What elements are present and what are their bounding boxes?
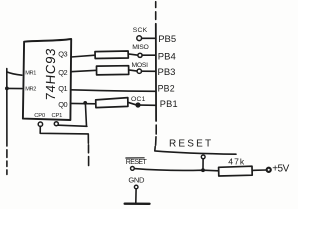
wire Q0 feedback to CP1 <box>58 104 87 127</box>
svg-text:CP1: CP1 <box>52 113 63 119</box>
pad RESET tap <box>201 155 205 159</box>
resistor R2 <box>97 66 129 75</box>
svg-text:PB3: PB3 <box>158 67 176 78</box>
resistor R1 <box>95 51 128 59</box>
pin CP0 pad <box>38 122 42 126</box>
node RESET junction <box>201 168 205 172</box>
overline of /RESET <box>125 157 144 159</box>
wire Q0 to R3 <box>71 102 96 104</box>
wire Q3 to R1 <box>71 55 95 57</box>
wire MISO pad to PB4 <box>142 54 156 56</box>
wire Q1 to PB2 <box>71 90 156 92</box>
wire R2 to MOSI pad <box>129 70 138 71</box>
wire MR1 pin <box>7 72 22 75</box>
svg-text:CP0: CP0 <box>34 113 45 119</box>
svg-text:Q3: Q3 <box>58 50 67 59</box>
wire port boundary dashed bottom <box>155 125 158 145</box>
wire left dashed continuation <box>6 150 8 175</box>
IC U1 74HC93 body <box>23 39 71 120</box>
pad MISO <box>138 53 142 57</box>
resistor R3 <box>96 98 128 108</box>
svg-text:MR1: MR1 <box>25 70 36 76</box>
wire R3 to OC1 node <box>128 102 136 105</box>
wire RESET tap drop <box>202 159 204 169</box>
wire SCK pad to PB5 <box>142 37 156 39</box>
svg-text:Q1: Q1 <box>58 84 67 93</box>
svg-text:Q0: Q0 <box>58 100 67 109</box>
pad GND connector <box>134 185 138 189</box>
svg-text:PB5: PB5 <box>158 34 176 45</box>
wire CP0 clock line <box>40 126 88 143</box>
svg-text:PB2: PB2 <box>158 83 175 93</box>
wire port boundary dashed top <box>155 2 157 20</box>
wire port boundary solid <box>155 24 157 121</box>
ground bar <box>125 202 150 205</box>
svg-text:PB4: PB4 <box>158 51 176 62</box>
svg-text:RESET: RESET <box>169 138 213 149</box>
svg-text:74HC93: 74HC93 <box>43 47 58 101</box>
svg-text:MR2: MR2 <box>25 87 36 93</box>
wire Q2 to R2 <box>71 70 97 71</box>
pin CP1 pad <box>54 122 58 126</box>
node Q0 junction <box>83 101 87 105</box>
svg-text:MOSI: MOSI <box>132 62 149 69</box>
svg-text:47k: 47k <box>228 156 245 166</box>
pad /RESET connector <box>131 167 135 171</box>
wire CP0 dashed continuation <box>88 145 90 166</box>
svg-text:PB1: PB1 <box>160 99 178 109</box>
ground stem <box>135 189 137 203</box>
node OC1 <box>136 103 140 107</box>
wire RESET from port <box>155 147 236 155</box>
wire left vertical MR bus <box>6 69 8 146</box>
svg-text:MISO: MISO <box>132 44 148 51</box>
node MR junction <box>5 87 9 91</box>
svg-text:SCK: SCK <box>133 27 148 34</box>
wire MOSI pad to PB3 <box>142 70 156 72</box>
pad SCK <box>137 36 142 41</box>
svg-text:Q2: Q2 <box>58 68 67 77</box>
wire OC1 to PB1 <box>140 104 156 106</box>
pad +5V <box>267 168 271 172</box>
pad MOSI <box>137 69 141 73</box>
svg-text:GND: GND <box>128 176 145 185</box>
wire R1 to MISO pad <box>128 54 138 55</box>
svg-text:RESET: RESET <box>126 159 148 166</box>
svg-text:OC1: OC1 <box>131 96 146 103</box>
svg-text:+5V: +5V <box>272 164 289 175</box>
wire R4 to +5V <box>252 169 266 171</box>
wire MR2 pin <box>7 87 22 89</box>
wire /RESET to junction to R4 <box>134 169 218 171</box>
resistor R4 47k <box>219 166 253 176</box>
